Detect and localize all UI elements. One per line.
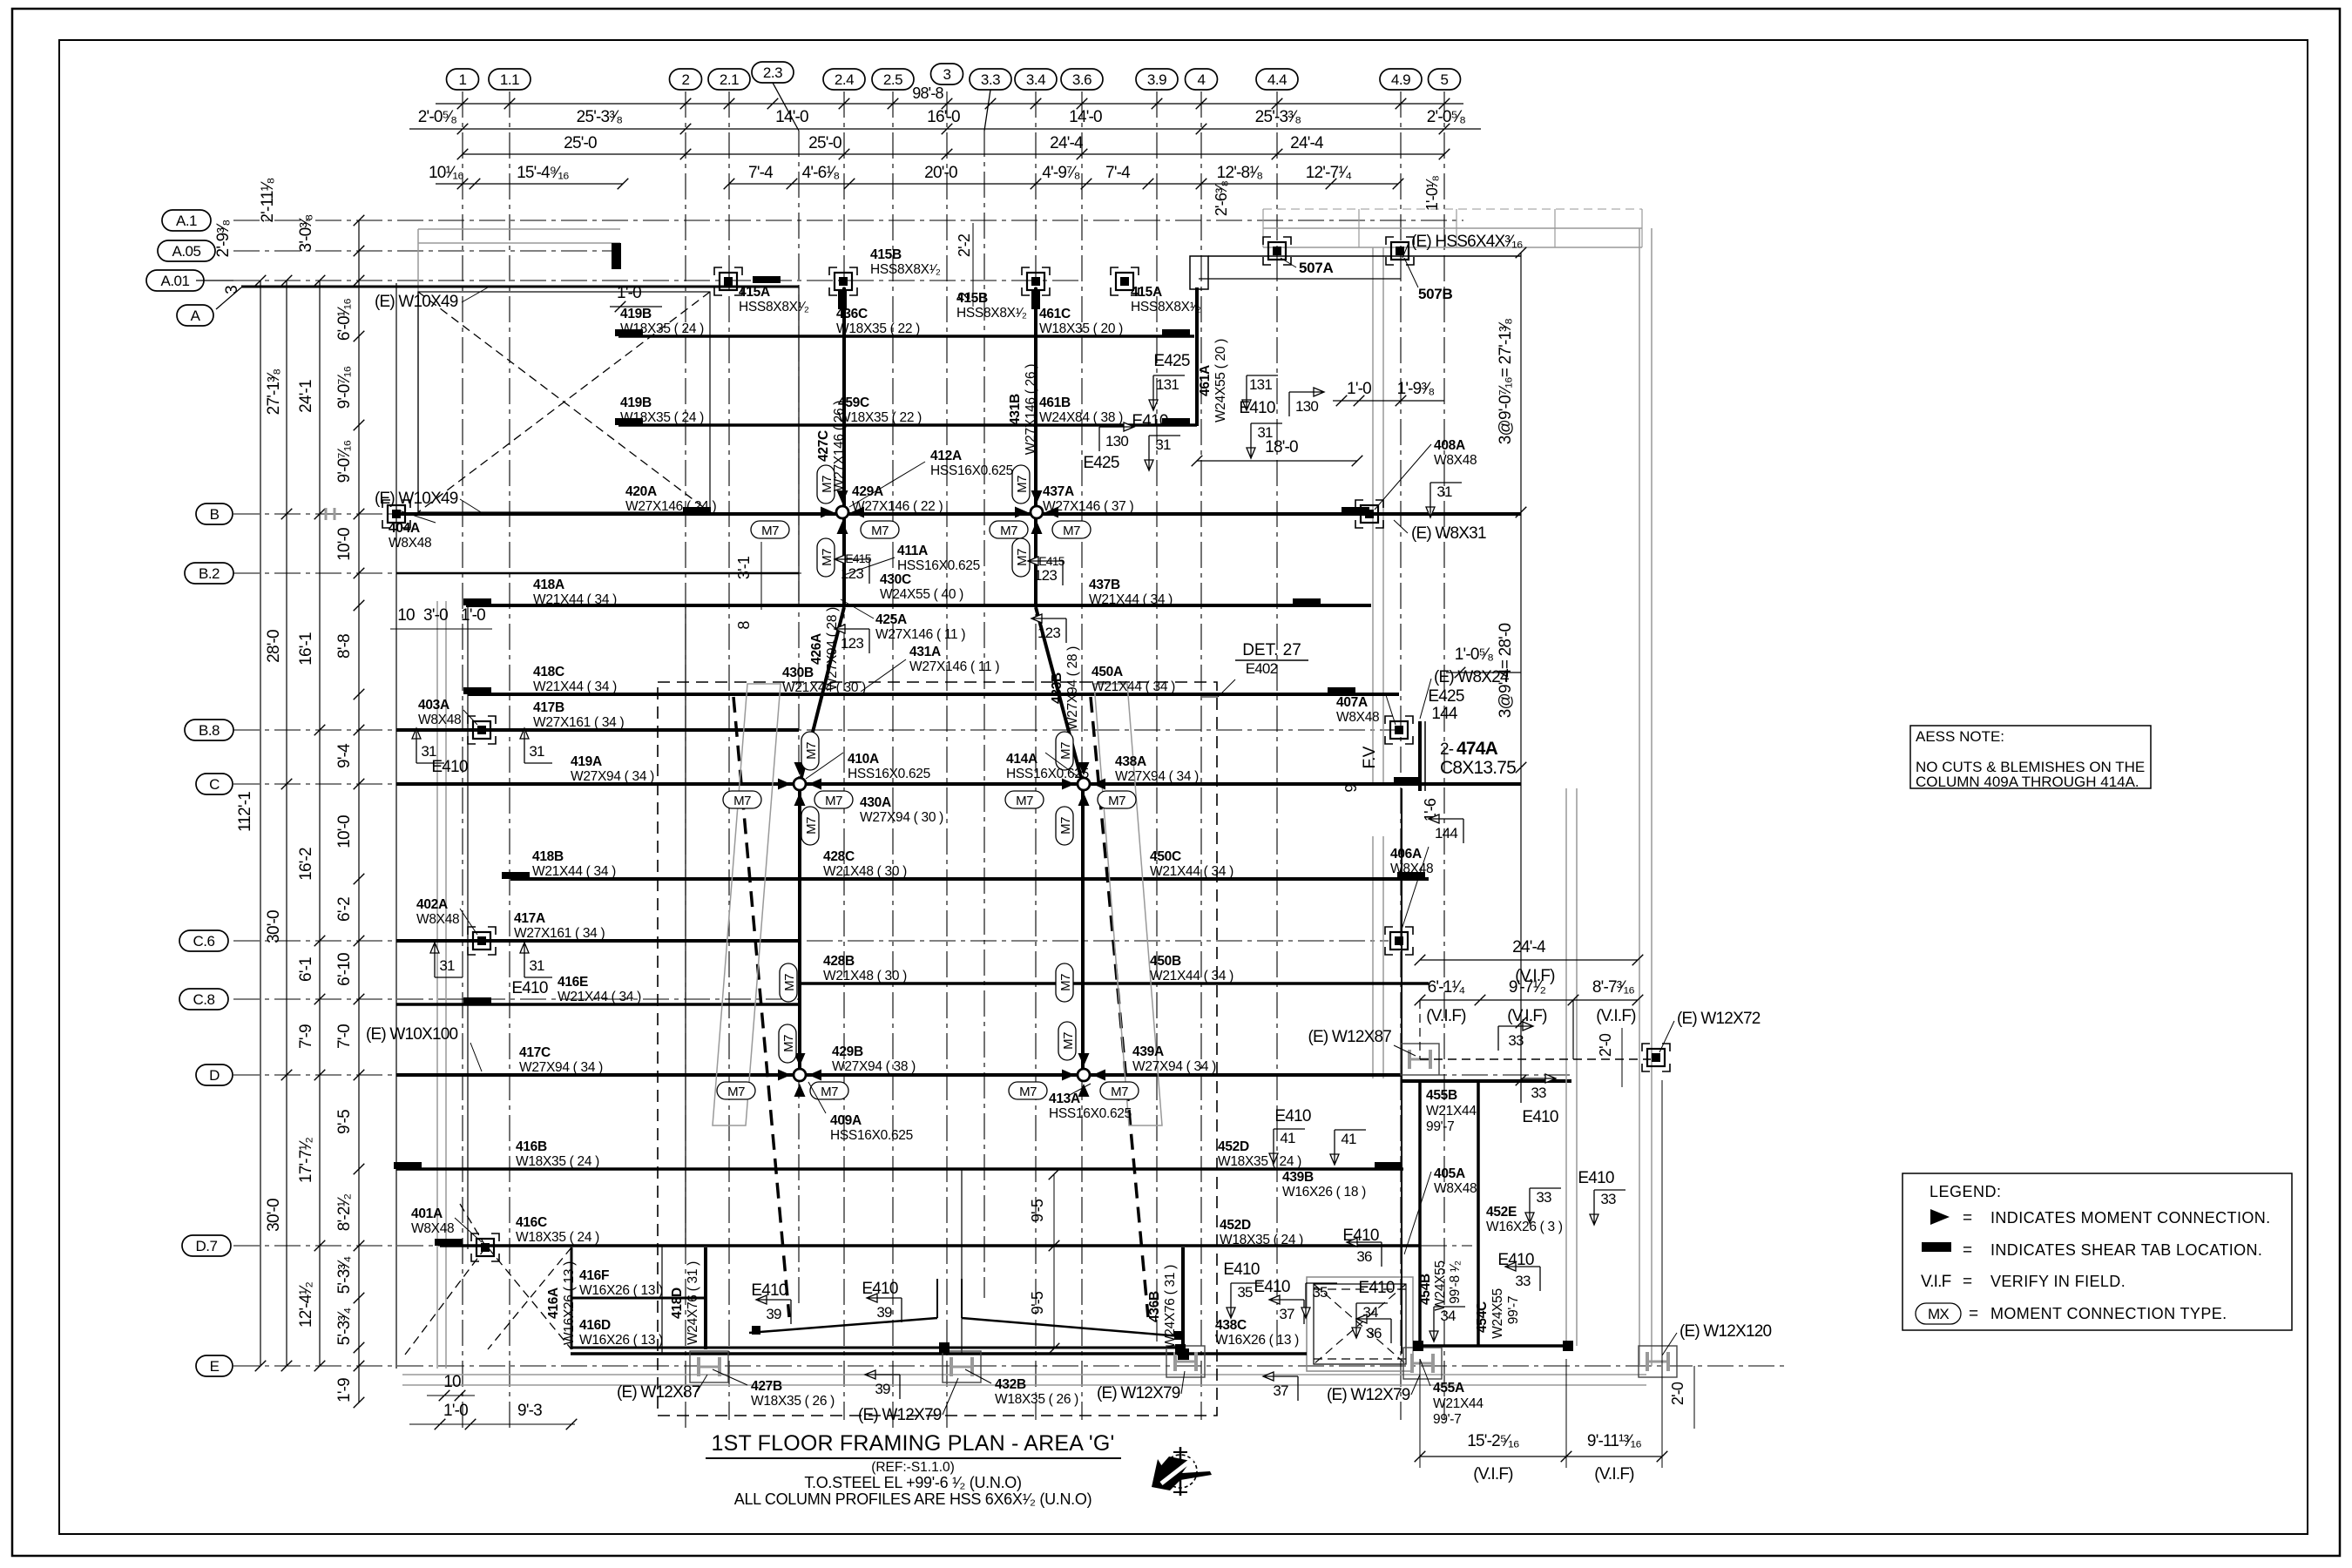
- svg-text:99'-7: 99'-7: [1433, 1412, 1461, 1427]
- grid bubble A.05: [158, 240, 215, 261]
- svg-text:454B: 454B: [1418, 1274, 1433, 1305]
- svg-text:2'-0⁵⁄₈: 2'-0⁵⁄₈: [418, 108, 456, 126]
- svg-text:E425: E425: [1153, 352, 1189, 370]
- svg-text:12'-8¹⁄₈: 12'-8¹⁄₈: [1217, 164, 1263, 182]
- svg-text:10'-0: 10'-0: [335, 815, 354, 848]
- svg-text:4'-9⁷⁄₈: 4'-9⁷⁄₈: [1042, 164, 1079, 182]
- svg-text:24'-4: 24'-4: [1290, 134, 1324, 152]
- svg-text:M7: M7: [1111, 1085, 1128, 1099]
- grid bubble 2: [670, 69, 702, 90]
- left dimension line 3: [319, 280, 321, 1366]
- svg-text:W18X35 ( 24 ): W18X35 ( 24 ): [620, 410, 704, 425]
- flags at B.8 row: [412, 728, 444, 763]
- svg-text:1'-9: 1'-9: [335, 1378, 354, 1402]
- svg-text:416B: 416B: [516, 1139, 547, 1154]
- column 407A col: [1385, 716, 1413, 744]
- svg-text:123: 123: [1034, 567, 1057, 584]
- svg-text:37: 37: [1273, 1382, 1288, 1399]
- svg-text:W18X35 ( 24 ): W18X35 ( 24 ): [620, 321, 704, 336]
- grid bubble E: [196, 1355, 233, 1376]
- svg-text:31: 31: [529, 743, 544, 760]
- svg-text:HSS16X0.625: HSS16X0.625: [1006, 767, 1089, 781]
- W12X87 column gray: [1401, 1044, 1439, 1075]
- svg-text:5'-3³⁄₄: 5'-3³⁄₄: [335, 1256, 354, 1294]
- svg-text:W18X35 ( 20 ): W18X35 ( 20 ): [1039, 321, 1123, 336]
- svg-text:3: 3: [223, 286, 241, 294]
- svg-text:35: 35: [1312, 1284, 1328, 1301]
- moment connection 413A node: [1062, 1053, 1105, 1097]
- svg-text:1'-0⁵⁄₈: 1'-0⁵⁄₈: [1455, 645, 1493, 664]
- column stubs below 415 cols: [838, 290, 847, 309]
- legend shear tab symbol: [1922, 1242, 1951, 1252]
- grid bubble 1.1: [489, 69, 531, 90]
- svg-text:429A: 429A: [852, 484, 883, 499]
- grid line 3.9: [1156, 91, 1158, 1342]
- svg-text:W27X94 ( 34 ): W27X94 ( 34 ): [1132, 1059, 1216, 1074]
- grid line 4.9: [1400, 91, 1402, 1420]
- X-brace bay bottom-left: [488, 1247, 571, 1349]
- svg-text:E410: E410: [431, 758, 467, 776]
- svg-text:=: =: [1963, 1273, 1972, 1291]
- svg-text:VERIFY IN FIELD.: VERIFY IN FIELD.: [1990, 1273, 2126, 1290]
- svg-text:W21X44 ( 34 ): W21X44 ( 34 ): [533, 592, 617, 607]
- column 507B col: [1386, 237, 1414, 265]
- 474A channel bars: [1418, 721, 1422, 791]
- svg-text:411A: 411A: [897, 544, 928, 558]
- X-brace bay top-left: [418, 292, 710, 512]
- svg-text:W8X48: W8X48: [411, 1221, 454, 1236]
- svg-text:130: 130: [1105, 433, 1128, 449]
- svg-text:M7: M7: [1061, 1032, 1076, 1050]
- beam row 488: 419B/459C/461B: [618, 423, 1197, 427]
- svg-text:W21X44 ( 34 ): W21X44 ( 34 ): [532, 864, 616, 879]
- svg-text:416E: 416E: [558, 975, 588, 990]
- grid line 2: [685, 91, 686, 1429]
- svg-text:437B: 437B: [1089, 578, 1120, 592]
- svg-text:413A: 413A: [1049, 1092, 1080, 1106]
- svg-text:36: 36: [1356, 1248, 1372, 1265]
- svg-text:450B: 450B: [1150, 954, 1181, 969]
- svg-text:B.2: B.2: [199, 565, 220, 582]
- svg-text:461B: 461B: [1039, 395, 1071, 410]
- svg-text:B: B: [210, 506, 220, 523]
- grid bubble A: [177, 305, 213, 326]
- svg-text:(E) W10X100: (E) W10X100: [366, 1025, 457, 1044]
- grid line E: [233, 1365, 1784, 1367]
- svg-text:W8X48: W8X48: [418, 713, 461, 727]
- svg-text:W8X48: W8X48: [1434, 453, 1477, 468]
- svg-text:M7: M7: [1015, 476, 1030, 493]
- svg-text:E415: E415: [845, 551, 872, 565]
- svg-text:2'-6³⁄₈: 2'-6³⁄₈: [1213, 181, 1230, 217]
- grid line 2.4: [843, 91, 845, 1420]
- grid line 3: [946, 91, 948, 1433]
- column 408A col: [1355, 500, 1383, 528]
- grid bubble D.7: [182, 1235, 231, 1256]
- svg-text:(E) W10X49: (E) W10X49: [375, 490, 458, 508]
- svg-text:30'-0: 30'-0: [265, 910, 283, 943]
- svg-text:401A: 401A: [411, 1206, 443, 1221]
- svg-text:6'-1: 6'-1: [297, 957, 315, 982]
- column 415 col 2.1: [714, 267, 742, 295]
- svg-text:W21X48 ( 30 ): W21X48 ( 30 ): [823, 864, 907, 879]
- svg-text:16'-1: 16'-1: [297, 632, 315, 666]
- grid line D: [233, 1074, 1573, 1076]
- svg-text:W21X44: W21X44: [1426, 1104, 1477, 1119]
- svg-text:36: 36: [1366, 1325, 1382, 1342]
- vert line grid2 plan: [685, 605, 686, 1246]
- svg-text:420A: 420A: [625, 484, 657, 499]
- svg-text:16'-0: 16'-0: [927, 108, 960, 126]
- beam row 1153: 416E: [396, 1003, 799, 1006]
- existing column at 1104: [943, 1351, 981, 1382]
- svg-text:W27X94 ( 28 ): W27X94 ( 28 ): [825, 607, 840, 691]
- grid line 2.1: [728, 91, 730, 1420]
- svg-text:31: 31: [1155, 436, 1171, 453]
- svg-text:9'-4: 9'-4: [335, 743, 354, 768]
- svg-text:MOMENT CONNECTION TYPE.: MOMENT CONNECTION TYPE.: [1990, 1305, 2227, 1322]
- svg-text:14'-0: 14'-0: [775, 108, 808, 126]
- svg-text:409A: 409A: [830, 1113, 862, 1128]
- svg-text:M7: M7: [761, 524, 779, 538]
- grid line 1: [462, 91, 463, 1429]
- north arrow: [1152, 1447, 1212, 1496]
- svg-text:E410: E410: [1223, 1260, 1259, 1279]
- svg-text:439A: 439A: [1132, 1044, 1164, 1059]
- raker column right vert: [1081, 784, 1085, 1075]
- svg-text:403A: 403A: [418, 698, 449, 713]
- svg-text:W8X48: W8X48: [1336, 710, 1379, 725]
- svg-text:M7: M7: [781, 1035, 796, 1052]
- grid line 3.3: [983, 131, 985, 1298]
- AESS note box: [1910, 726, 2151, 788]
- svg-text:1'-0: 1'-0: [617, 284, 641, 302]
- svg-text:407A: 407A: [1336, 695, 1368, 710]
- svg-text:W27X146 ( 26 ): W27X146 ( 26 ): [1024, 364, 1038, 455]
- top dimension line row 4: [436, 183, 623, 185]
- beam grid B: 420A/429A/437A: [396, 512, 1521, 516]
- svg-text:4: 4: [1198, 71, 1206, 88]
- svg-text:E402: E402: [1246, 660, 1278, 677]
- flags 130/E425/E410/31 mid right: [1099, 422, 1134, 451]
- svg-text:427C: 427C: [816, 430, 831, 462]
- svg-text:450C: 450C: [1150, 849, 1181, 864]
- svg-text:2'-0⁵⁄₈: 2'-0⁵⁄₈: [1427, 108, 1465, 126]
- svg-text:7'-4: 7'-4: [748, 164, 774, 182]
- svg-text:M7: M7: [820, 549, 835, 566]
- svg-text:2-: 2-: [1440, 740, 1454, 759]
- svg-text:41: 41: [1280, 1130, 1295, 1146]
- svg-text:2.1: 2.1: [720, 71, 739, 88]
- svg-text:24'-4: 24'-4: [1050, 134, 1084, 152]
- gray wall top-left: [418, 228, 620, 230]
- svg-text:31: 31: [1436, 483, 1452, 500]
- top dimension line row 2: [409, 128, 1481, 130]
- svg-text:454C: 454C: [1475, 1301, 1490, 1333]
- svg-text:E410: E410: [1132, 412, 1167, 430]
- svg-text:418A: 418A: [533, 578, 564, 592]
- grid bubble B: [196, 504, 233, 524]
- svg-text:V.I.F: V.I.F: [1921, 1273, 1951, 1291]
- beam 461A (vert): [1195, 287, 1199, 426]
- svg-text:507B: 507B: [1418, 286, 1452, 302]
- svg-text:452D: 452D: [1218, 1139, 1249, 1154]
- svg-text:E410: E410: [1254, 1278, 1289, 1296]
- svg-text:C.8: C.8: [193, 991, 215, 1008]
- left dimension line 2: [286, 280, 287, 1366]
- svg-text:25'-3³⁄₈: 25'-3³⁄₈: [577, 108, 623, 126]
- svg-text:439B: 439B: [1282, 1170, 1314, 1185]
- svg-text:HSS16X0.625: HSS16X0.625: [930, 463, 1013, 478]
- grid line 3.4: [1035, 91, 1037, 1420]
- svg-text:4.4: 4.4: [1267, 71, 1287, 88]
- svg-text:7'-4: 7'-4: [1105, 164, 1131, 182]
- raker heavy dashed left: [733, 697, 789, 1317]
- svg-text:A.01: A.01: [161, 273, 190, 289]
- tie line bottom left: [749, 1318, 937, 1333]
- svg-text:M7: M7: [825, 794, 842, 808]
- grid bubble D: [196, 1064, 233, 1085]
- svg-text:452E: 452E: [1486, 1205, 1517, 1220]
- svg-text:123: 123: [841, 565, 863, 582]
- beam 454B/454C divider vert: [1477, 1081, 1480, 1346]
- svg-text:M7: M7: [782, 974, 797, 991]
- svg-text:99'-8 ¹⁄₂: 99'-8 ¹⁄₂: [1448, 1260, 1463, 1304]
- moment connection 429A node: [821, 490, 864, 534]
- grid line B.2: [233, 572, 801, 574]
- raker 433B upper: [1034, 512, 1037, 607]
- grid bubble 5: [1429, 69, 1461, 90]
- svg-text:3@9'-0⁷⁄₁₆= 27'-1³⁄₈: 3@9'-0⁷⁄₁₆= 27'-1³⁄₈: [1497, 319, 1515, 444]
- svg-text:M7: M7: [1058, 742, 1073, 760]
- svg-text:W16X26 ( 13 ): W16X26 ( 13 ): [579, 1283, 663, 1298]
- svg-text:20'-0: 20'-0: [924, 164, 957, 182]
- grid bubble 4.4: [1256, 69, 1298, 90]
- svg-text:=: =: [1963, 1209, 1972, 1227]
- column 401A col: [471, 1233, 499, 1261]
- grid line D.7: [233, 1245, 1472, 1247]
- svg-text:M7: M7: [1058, 817, 1073, 835]
- svg-text:455A: 455A: [1433, 1381, 1464, 1396]
- grid bubble C: [196, 774, 233, 794]
- svg-text:10'-0: 10'-0: [335, 528, 354, 561]
- svg-text:31: 31: [529, 957, 544, 974]
- svg-text:432B: 432B: [995, 1377, 1026, 1392]
- svg-text:2: 2: [956, 292, 973, 301]
- svg-text:LEGEND:: LEGEND:: [1930, 1183, 2002, 1200]
- svg-text:1'-0: 1'-0: [461, 606, 485, 625]
- svg-text:M7: M7: [804, 817, 819, 835]
- svg-text:E410: E410: [862, 1280, 897, 1298]
- svg-text:HSS16X0.625: HSS16X0.625: [848, 767, 930, 781]
- beam grid C.6: 417A: [396, 939, 799, 943]
- dashed lines right room top: [1419, 1000, 1421, 1059]
- grid line 4: [1200, 91, 1202, 1420]
- flags 39 bottom: [756, 1295, 791, 1324]
- svg-text:99'-7: 99'-7: [1506, 1296, 1521, 1324]
- gray wall bottom (E row): [402, 1374, 1646, 1375]
- gray parallelogram left: [713, 684, 781, 1125]
- grid line 3.6: [1081, 91, 1083, 1420]
- svg-text:C8X13.75: C8X13.75: [1440, 758, 1516, 778]
- svg-text:M7: M7: [1016, 794, 1033, 808]
- svg-text:431B: 431B: [1008, 394, 1023, 425]
- svg-text:(V.I.F): (V.I.F): [1596, 1007, 1636, 1025]
- svg-text:W27X94 ( 34 ): W27X94 ( 34 ): [1115, 769, 1199, 784]
- svg-text:402A: 402A: [416, 897, 448, 912]
- svg-text:E410: E410: [751, 1281, 787, 1300]
- svg-text:1: 1: [459, 71, 467, 88]
- svg-text:15'-4⁹⁄₁₆: 15'-4⁹⁄₁₆: [517, 164, 569, 182]
- svg-text:34: 34: [1440, 1308, 1456, 1324]
- svg-text:W8X48: W8X48: [1390, 862, 1433, 876]
- svg-text:426A: 426A: [809, 633, 824, 665]
- beam 455B room left vert: [1418, 1081, 1422, 1346]
- svg-text:W27X94 ( 34 ): W27X94 ( 34 ): [519, 1060, 603, 1075]
- beam A.01 top (grid A): [241, 286, 799, 288]
- M7 moment connection tags: [751, 521, 789, 538]
- svg-text:W27X146 ( 24 ): W27X146 ( 24 ): [625, 499, 716, 514]
- beam row 1342: 416B/452D: [396, 1167, 1403, 1171]
- svg-text:416D: 416D: [579, 1318, 611, 1333]
- svg-text:A.05: A.05: [172, 243, 201, 260]
- gray parallelogram right: [1094, 684, 1162, 1125]
- svg-text:419B: 419B: [620, 395, 652, 410]
- column W12X72 col: [1642, 1044, 1670, 1071]
- svg-text:W21X44 ( 34 ): W21X44 ( 34 ): [558, 990, 641, 1004]
- svg-text:W18X35 ( 26 ): W18X35 ( 26 ): [995, 1392, 1078, 1407]
- svg-text:(V.I.F): (V.I.F): [1507, 1007, 1547, 1025]
- gray wall left vertical: [436, 601, 438, 1369]
- svg-text:ALL COLUMN PROFILES ARE HSS 6X: ALL COLUMN PROFILES ARE HSS 6X6X¹⁄₂ (U.N…: [734, 1490, 1092, 1508]
- svg-text:M7: M7: [1108, 794, 1125, 808]
- leader 432B: [965, 1369, 991, 1383]
- svg-text:(E) W12X72: (E) W12X72: [1677, 1010, 1761, 1028]
- svg-text:W18X35 ( 24 ): W18X35 ( 24 ): [1220, 1233, 1303, 1247]
- svg-text:2'-11¹⁄₈: 2'-11¹⁄₈: [259, 178, 277, 222]
- svg-text:3'-0³⁄₈: 3'-0³⁄₈: [297, 215, 315, 253]
- svg-text:406A: 406A: [1390, 847, 1422, 862]
- existing column at 1361: [1166, 1346, 1205, 1377]
- svg-text:4.9: 4.9: [1391, 71, 1410, 88]
- svg-text:418D: 418D: [670, 1288, 685, 1319]
- beam grid B.2: [396, 572, 799, 575]
- legend MX bubble: [1916, 1303, 1961, 1324]
- svg-text:6'-0¹⁄₁₆: 6'-0¹⁄₁₆: [335, 299, 354, 341]
- svg-text:(E) W10X49: (E) W10X49: [375, 293, 458, 311]
- svg-text:W24X55: W24X55: [1433, 1260, 1448, 1311]
- svg-text:M7: M7: [1019, 1085, 1037, 1099]
- svg-text:3'-1: 3'-1: [735, 556, 753, 579]
- svg-text:10: 10: [397, 606, 415, 625]
- svg-text:12'-7¹⁄₄: 12'-7¹⁄₄: [1306, 164, 1353, 182]
- svg-text:35: 35: [1237, 1284, 1253, 1301]
- right vertical dim 3@9 top: [1520, 253, 1522, 1080]
- gray wall right room: [1565, 788, 1567, 1346]
- svg-text:W21X48 ( 30 ): W21X48 ( 30 ): [823, 969, 907, 983]
- svg-text:31: 31: [439, 957, 455, 974]
- svg-text:1ST FLOOR FRAMING PLAN - AREA: 1ST FLOOR FRAMING PLAN - AREA 'G': [711, 1431, 1114, 1456]
- shear tab location marks: [615, 329, 643, 336]
- svg-text:W21X44 ( 34 ): W21X44 ( 34 ): [1092, 679, 1175, 694]
- beam row 1547: 416D/436B/438C: [571, 1347, 1183, 1349]
- svg-text:2'-9³⁄₈: 2'-9³⁄₈: [214, 220, 233, 258]
- svg-text:E410: E410: [1274, 1107, 1310, 1125]
- svg-text:W21X44 ( 34 ): W21X44 ( 34 ): [1150, 969, 1233, 983]
- raker heavy dashed right: [1091, 697, 1148, 1317]
- svg-text:412A: 412A: [930, 449, 962, 463]
- svg-text:INDICATES SHEAR TAB LOCATION.: INDICATES SHEAR TAB LOCATION.: [1990, 1241, 2262, 1259]
- leaders for HSS node labels: [849, 462, 925, 507]
- svg-text:123: 123: [841, 635, 863, 652]
- svg-text:6'-1¹⁄₄: 6'-1¹⁄₄: [1428, 978, 1466, 997]
- svg-text:131: 131: [1156, 376, 1179, 393]
- svg-text:427B: 427B: [751, 1379, 782, 1394]
- grid line C.6: [233, 940, 1389, 942]
- svg-text:W27X146 ( 22 ): W27X146 ( 22 ): [852, 499, 943, 514]
- svg-text:461C: 461C: [1039, 307, 1071, 321]
- grid line 5: [1443, 91, 1445, 1420]
- svg-text:436B: 436B: [1147, 1291, 1162, 1322]
- beam 436B (vert): [1181, 1247, 1185, 1354]
- svg-text:INDICATES MOMENT CONNECTION.: INDICATES MOMENT CONNECTION.: [1990, 1209, 2271, 1227]
- svg-text:8: 8: [735, 621, 753, 630]
- svg-text:39: 39: [876, 1304, 892, 1321]
- grid bubble A.01: [146, 270, 204, 291]
- svg-text:37: 37: [1279, 1306, 1294, 1322]
- svg-text:12'-4¹⁄₂: 12'-4¹⁄₂: [297, 1282, 315, 1328]
- svg-text:W16X26 ( 3 ): W16X26 ( 3 ): [1486, 1220, 1563, 1234]
- svg-text:9'-5: 9'-5: [1029, 1291, 1046, 1315]
- svg-text:W27X146 ( 11 ): W27X146 ( 11 ): [909, 659, 999, 674]
- svg-text:T.O.STEEL EL +99'-6 ¹⁄₂ (U.N.: T.O.STEEL EL +99'-6 ¹⁄₂ (U.N.O): [804, 1474, 1021, 1491]
- svg-text:428B: 428B: [823, 954, 855, 969]
- svg-text:416A: 416A: [546, 1288, 561, 1319]
- grid bubble 3: [931, 64, 963, 84]
- grid bubble 2.4: [823, 69, 865, 90]
- svg-text:30'-0: 30'-0: [265, 1199, 283, 1232]
- svg-text:438A: 438A: [1115, 754, 1146, 769]
- svg-text:E410: E410: [1578, 1169, 1613, 1187]
- grid bubble C.8: [179, 989, 228, 1010]
- svg-text:507A: 507A: [1299, 260, 1333, 276]
- leader for bubble A: [216, 287, 241, 309]
- grid line 2.3: [798, 131, 800, 1307]
- svg-text:452D: 452D: [1220, 1218, 1251, 1233]
- column 415 col 3.4: [1022, 267, 1050, 295]
- svg-text:3.3: 3.3: [981, 71, 1000, 88]
- svg-text:9'-3: 9'-3: [517, 1402, 542, 1420]
- svg-text:(V.I.F): (V.I.F): [1473, 1465, 1513, 1484]
- svg-text:429B: 429B: [832, 1044, 863, 1059]
- svg-text:W27X146 ( 26 ): W27X146 ( 26 ): [832, 401, 847, 491]
- svg-text:455B: 455B: [1426, 1088, 1457, 1103]
- svg-text:7'-9: 7'-9: [297, 1024, 315, 1049]
- thin wall line x917: [798, 287, 800, 601]
- svg-text:W21X44: W21X44: [1433, 1396, 1484, 1411]
- grid bubble B.2: [185, 563, 233, 584]
- svg-text:W21X44 ( 34 ): W21X44 ( 34 ): [533, 679, 617, 694]
- svg-text:1'-0: 1'-0: [443, 1402, 468, 1420]
- svg-text:123: 123: [1037, 625, 1060, 641]
- column 507A col: [1263, 237, 1291, 265]
- svg-text:W24X76 ( 31 ): W24X76 ( 31 ): [1163, 1265, 1178, 1348]
- svg-text:(E) W12X87: (E) W12X87: [1308, 1028, 1392, 1046]
- grid line 4.4: [1276, 91, 1278, 1346]
- grid line C.8: [233, 998, 801, 1000]
- svg-text:W8X48: W8X48: [416, 912, 459, 927]
- svg-text:8'-7³⁄₁₆: 8'-7³⁄₁₆: [1592, 978, 1634, 997]
